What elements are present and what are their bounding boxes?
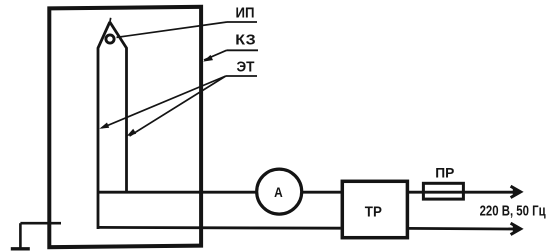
wire: transformer lower output bbox=[408, 227, 515, 230]
wire: ammeter to transformer bbox=[302, 191, 343, 194]
underline КЗ bbox=[227, 49, 259, 51]
leader ЭТ to right electrode bbox=[130, 76, 226, 136]
probe tip apex spike bbox=[110, 18, 111, 24]
svg-text:220 В, 50 Гц: 220 В, 50 Гц bbox=[480, 203, 546, 219]
svg-text:КЗ: КЗ bbox=[235, 32, 255, 48]
fuse ПР bbox=[423, 183, 463, 199]
svg-text:А: А bbox=[274, 184, 283, 200]
underline ИП bbox=[227, 21, 257, 23]
arrowhead lower output bbox=[511, 223, 521, 234]
leader ЭТ to left electrode bbox=[102, 76, 226, 128]
electrode ЭТ right leg bbox=[110, 22, 127, 193]
leader КЗ to chamber wall bbox=[204, 50, 227, 60]
arrowhead upper output bbox=[511, 186, 521, 197]
arrowhead КЗ bbox=[203, 55, 213, 62]
underline ЭТ bbox=[226, 75, 257, 77]
wire ground-to-chamber bbox=[20, 222, 61, 225]
electrode ЭТ left leg bbox=[98, 22, 110, 229]
leader ИП to hot junction bbox=[117, 22, 228, 37]
arrowhead ЭТ left bbox=[99, 123, 109, 129]
transformer ТР box bbox=[342, 181, 407, 237]
ammeter А bbox=[257, 169, 302, 214]
wire A: electrodes to ammeter bbox=[98, 191, 257, 194]
svg-text:ТР: ТР bbox=[365, 204, 382, 220]
wire B: chamber to transformer (lower) bbox=[98, 226, 341, 230]
svg-text:ПР: ПР bbox=[435, 165, 454, 181]
svg-text:ЭТ: ЭТ bbox=[237, 60, 255, 76]
ground bbox=[11, 223, 30, 249]
arrowhead ЭТ right bbox=[127, 129, 137, 136]
svg-text:ИП: ИП bbox=[236, 5, 255, 21]
wire: transformer to fuse and output (upper) bbox=[408, 191, 515, 194]
chamber box КЗ bbox=[49, 7, 201, 247]
hot junction ИП (ring) bbox=[106, 35, 114, 43]
